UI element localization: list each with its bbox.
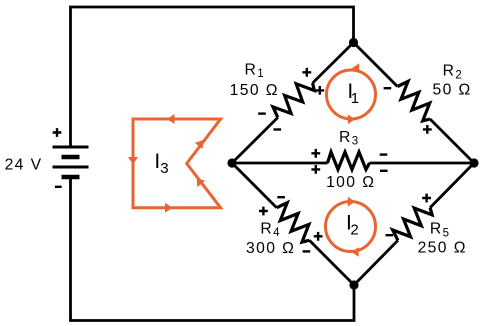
battery 24 V [53,147,89,177]
node: left junction [227,158,236,167]
svg-text:300 Ω: 300 Ω [246,240,295,257]
node: top junction [349,38,358,47]
polarity + R5 upper [422,194,431,203]
polarity + R4 upper outer [259,207,268,216]
node: right junction [469,158,478,167]
polarity - R4 lower outer [303,250,311,252]
svg-text:24 V: 24 V [5,157,43,174]
svg-text:R3: R3 [339,129,358,148]
mesh current loop I2 (clockwise) [326,197,376,257]
resistor R2 [354,43,475,164]
svg-text:I3: I3 [154,150,168,177]
svg-text:I2: I2 [346,212,359,239]
polarity + R1 upper inner [315,86,324,95]
svg-text:50 Ω: 50 Ω [433,81,472,98]
polarity - R3 right lower [380,170,388,172]
svg-text:R4: R4 [260,220,280,239]
polarity - R3 right upper [380,153,388,155]
mesh current loop I1 (counterclockwise) [327,63,376,124]
svg-text:150 Ω: 150 Ω [230,82,279,99]
battery + polarity mark [53,128,62,137]
polarity - R4 upper inner [277,196,285,198]
polarity + R3 left lower [311,165,320,174]
node: bottom junction [349,280,358,289]
polarity + R3 left upper [311,149,320,158]
svg-text:250 Ω: 250 Ω [418,240,467,257]
polarity + R1 upper outer [302,68,311,77]
polarity - R1 lower outer [258,112,266,114]
wire: battery bottom terminal down, across bottom, up to bottom node [71,177,355,321]
mesh current loop I3 (counterclockwise) [128,114,221,213]
polarity - R1 lower inner [274,128,282,130]
svg-text:R2: R2 [443,63,462,82]
battery - polarity mark [55,186,62,188]
resistor R5 [354,163,474,285]
polarity + R4 lower inner [314,232,323,241]
svg-text:I1: I1 [347,80,359,107]
polarity - R2 upper [384,87,392,89]
polarity - R5 lower [386,234,394,236]
resistor R4 [232,163,354,285]
resistor R3 [232,152,474,170]
resistor R1 [232,43,354,164]
svg-text:R1: R1 [245,61,264,80]
svg-text:100 Ω: 100 Ω [326,174,375,191]
wire: battery top terminal up, across top, down to top node [71,7,354,147]
svg-text:R5: R5 [430,221,449,240]
polarity + R2 lower [423,125,432,134]
